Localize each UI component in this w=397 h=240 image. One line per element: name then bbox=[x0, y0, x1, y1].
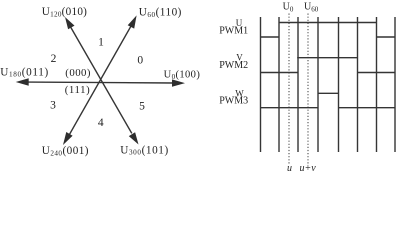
sector number 0 bbox=[137, 55, 143, 67]
label U240(001) bbox=[42, 145, 89, 157]
PWM2 low level segment right bbox=[358, 72, 396, 74]
wire: horizontal axis of vector star bbox=[27, 81, 174, 84]
label U phase bbox=[236, 18, 243, 28]
PWM chart vertical grid line x=260.5 (period start) bbox=[260, 17, 262, 152]
svg-text:U60(110): U60(110) bbox=[139, 7, 182, 19]
label u+v bottom bbox=[300, 163, 317, 174]
label PWM1 bbox=[219, 25, 248, 36]
svg-text:1: 1 bbox=[98, 37, 104, 49]
label U0(100) bbox=[164, 69, 201, 81]
arrowhead down-right (U300 vector) bbox=[129, 132, 139, 144]
svg-text:0: 0 bbox=[137, 55, 143, 67]
PWM3 low level segment left bbox=[261, 107, 319, 109]
svg-text:u: u bbox=[287, 163, 292, 174]
sector number 1 bbox=[98, 37, 104, 49]
PWM chart vertical grid line x=395 (period end) bbox=[394, 17, 396, 152]
sector number 2 bbox=[51, 53, 57, 65]
label PWM2 bbox=[219, 60, 248, 71]
arrowhead down-left (U240 vector) bbox=[63, 132, 73, 145]
PWM2 low level segment left bbox=[261, 72, 299, 74]
svg-text:U300(101): U300(101) bbox=[120, 144, 169, 156]
PWM chart vertical grid line x=318 (PWM3 rise) bbox=[317, 17, 319, 152]
sector number 3 bbox=[50, 100, 56, 112]
arrowhead left (U180 vector) bbox=[16, 78, 29, 85]
node (111) zero vector label bbox=[65, 84, 91, 96]
svg-text:PWM2: PWM2 bbox=[219, 60, 248, 71]
PWM chart vertical grid line x=338.5 (PWM3 fall) bbox=[338, 17, 340, 152]
arrowhead up-right (U60 vector) bbox=[128, 15, 137, 28]
arrowhead up-left (U120 vector) bbox=[65, 17, 75, 29]
svg-text:U240(001): U240(001) bbox=[42, 145, 89, 157]
svg-text:U0: U0 bbox=[283, 1, 294, 13]
label U0 marker top bbox=[283, 1, 294, 13]
PWM chart vertical grid line x=357.5 (PWM2 fall) bbox=[357, 17, 359, 152]
PWM1 low level segment right bbox=[377, 36, 396, 38]
svg-text:u+v: u+v bbox=[300, 163, 317, 174]
svg-text:4: 4 bbox=[98, 117, 104, 129]
label W phase bbox=[235, 88, 244, 98]
PWM chart vertical grid line x=376.5 (PWM1 fall) bbox=[376, 17, 378, 152]
PWM3 high level segment bbox=[318, 92, 339, 94]
label U300(101) bbox=[120, 144, 169, 156]
PWM1 high level segment bbox=[279, 22, 377, 24]
label U60 marker top bbox=[304, 1, 319, 13]
svg-text:U0(100): U0(100) bbox=[164, 69, 201, 81]
svg-text:PWM1: PWM1 bbox=[219, 25, 248, 36]
svg-text:U60: U60 bbox=[304, 1, 319, 13]
arrowhead right (U0 vector) bbox=[172, 79, 185, 86]
sector number 5 bbox=[139, 101, 145, 113]
PWM3 low level segment right bbox=[339, 107, 396, 109]
svg-text:U120(010): U120(010) bbox=[42, 6, 87, 18]
label U180(011) bbox=[0, 66, 49, 78]
label U120(010) bbox=[42, 6, 87, 18]
svg-text:5: 5 bbox=[139, 101, 145, 113]
PWM chart vertical grid line x=298 (PWM2 rise) bbox=[297, 17, 299, 152]
svg-text:(000): (000) bbox=[65, 67, 91, 79]
wire: 60-degree diagonal (up-right to down-left) bbox=[69, 25, 132, 136]
label U60(110) bbox=[139, 7, 182, 19]
label V phase bbox=[236, 52, 243, 62]
node (000) zero vector label bbox=[65, 67, 91, 79]
label PWM3 bbox=[219, 95, 248, 106]
svg-text:(111): (111) bbox=[65, 84, 91, 96]
PWM1 low level segment left bbox=[261, 36, 280, 38]
svg-text:3: 3 bbox=[50, 100, 56, 112]
wire: 120-degree diagonal (up-left to down-right) bbox=[70, 27, 132, 134]
svg-text:PWM3: PWM3 bbox=[219, 95, 248, 106]
sector number 4 bbox=[98, 117, 104, 129]
dotted marker line U60 bbox=[307, 14, 309, 165]
PWM2 high level segment bbox=[297, 57, 357, 59]
PWM chart vertical grid line x=279 (PWM1 rise) bbox=[278, 17, 280, 152]
svg-text:U180(011): U180(011) bbox=[0, 66, 49, 78]
svg-text:2: 2 bbox=[51, 53, 57, 65]
label u bottom bbox=[287, 163, 292, 174]
dotted marker line U0 bbox=[288, 14, 290, 165]
